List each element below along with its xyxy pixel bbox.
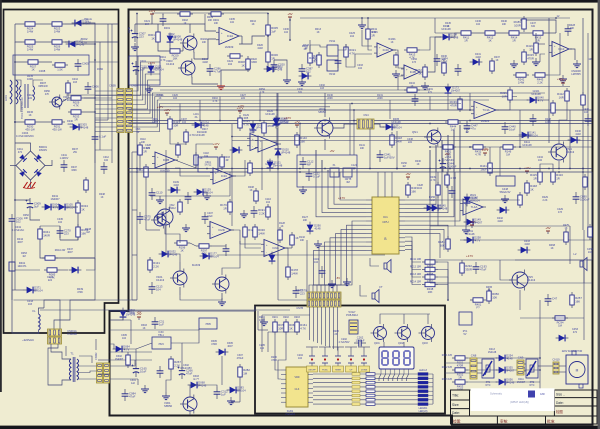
wire (15, 143, 31, 151)
svg-text:IC2A: IC2A (227, 34, 233, 38)
resistor R008 (246, 56, 250, 72)
wire (231, 124, 233, 137)
svg-text:1M: 1M (86, 231, 89, 234)
wire (94, 130, 96, 163)
wire (368, 42, 372, 50)
wire (321, 234, 366, 298)
diode D005 (383, 124, 396, 131)
diode D003 (70, 124, 83, 131)
push button S202 (322, 352, 328, 366)
svg-text:1K: 1K (496, 59, 499, 62)
resistor R440 (518, 192, 522, 208)
svg-text:0.47uF/400VDC: 0.47uF/400VDC (16, 135, 34, 138)
diode D111 (230, 147, 243, 154)
svg-text:Size ..: Size .. (556, 393, 565, 397)
svg-text:1K: 1K (417, 163, 420, 166)
svg-text:3A: 3A (195, 116, 198, 119)
power rail (138, 317, 140, 320)
svg-text:4R: 4R (225, 159, 228, 162)
junction (94, 111, 96, 113)
junction (353, 109, 355, 111)
wire (333, 124, 357, 128)
wire (313, 225, 366, 298)
wire (239, 380, 241, 402)
ground (501, 195, 509, 203)
ground (559, 75, 567, 83)
wire (432, 374, 434, 404)
wire (95, 104, 117, 106)
svg-text:222: 222 (408, 141, 413, 144)
wire (110, 378, 139, 380)
capacitor C023 (207, 64, 214, 76)
transistor V003 (178, 59, 195, 78)
svg-text:Date:: Date: (452, 411, 460, 415)
svg-text:L001: L001 (4, 95, 8, 101)
svg-text:+7V: +7V (294, 120, 299, 124)
wire (535, 33, 537, 40)
resistor R421 (513, 73, 529, 77)
svg-text:104: 104 (584, 111, 589, 114)
resistor R049 (84, 177, 88, 193)
wire (313, 403, 418, 405)
wire (321, 307, 323, 322)
wire (95, 131, 117, 133)
svg-text:C008: C008 (39, 69, 46, 73)
capacitor C433 (449, 186, 456, 198)
diode GN21 (527, 97, 540, 104)
capacitor C110 (149, 188, 156, 200)
wire (30, 180, 32, 188)
svg-text:CN3B: CN3B (109, 85, 116, 88)
svg-text:8P: 8P (137, 131, 140, 134)
svg-text:IC2C: IC2C (221, 174, 227, 178)
svg-text:4007: 4007 (227, 345, 233, 348)
wire (405, 250, 421, 285)
zener diode ZD001 (72, 20, 85, 27)
wire (569, 110, 571, 168)
electrolytic capacitor C302 (178, 365, 186, 379)
svg-text:4148: 4148 (203, 124, 209, 128)
wire (15, 80, 21, 86)
wire (367, 18, 369, 26)
resistor R123 (148, 257, 152, 273)
wire (259, 93, 261, 121)
wire (39, 308, 45, 314)
svg-text:1K: 1K (565, 227, 568, 230)
thermistor RT2 (529, 362, 535, 375)
wire (405, 234, 440, 258)
resistor R030 (22, 120, 38, 124)
display board outline (255, 306, 445, 414)
svg-text:1M: 1M (402, 165, 405, 168)
connector CN8 (470, 358, 477, 379)
wire (474, 32, 482, 34)
svg-text:+17V: +17V (466, 254, 473, 258)
ground (260, 318, 268, 326)
capacitor C041b (377, 150, 384, 162)
wire (396, 131, 398, 169)
svg-text:2.2K: 2.2K (537, 81, 543, 85)
svg-text:S8550: S8550 (164, 404, 173, 408)
ground (328, 280, 336, 288)
resistor R150 (406, 182, 410, 198)
capacitor C111 (185, 192, 192, 204)
svg-text:NTC: NTC (530, 384, 535, 387)
junction (14, 199, 16, 201)
svg-text:ON/OFF: ON/OFF (308, 370, 316, 372)
IC201 pins (281, 370, 313, 402)
op-amp IC10 (549, 42, 572, 57)
svg-text:IC4C: IC4C (383, 48, 389, 52)
wire (276, 93, 278, 115)
svg-text:4148: 4148 (315, 227, 321, 231)
wire (447, 135, 449, 172)
7-seg digit 2 (393, 351, 399, 365)
wire (95, 90, 117, 92)
svg-text:470R: 470R (527, 56, 534, 60)
connector CN3B (117, 89, 124, 133)
wire (133, 93, 161, 118)
svg-text:IC2D: IC2D (218, 228, 224, 232)
svg-text:Q202: Q202 (398, 343, 404, 345)
junction (277, 168, 279, 170)
svg-text:1/4W: 1/4W (291, 271, 298, 275)
wire (33, 80, 43, 86)
wire (313, 373, 418, 375)
svg-text:CLK: CLK (295, 388, 300, 391)
svg-text:10R: 10R (278, 326, 283, 330)
thermistor mark 1 (483, 361, 492, 376)
svg-text:1K: 1K (281, 225, 284, 228)
svg-text:UF4148: UF4148 (449, 36, 459, 40)
svg-text:10uF: 10uF (207, 215, 213, 218)
wire (67, 206, 78, 208)
resistor R442 (404, 48, 420, 52)
wire (325, 324, 327, 346)
junction (94, 97, 96, 99)
junction (353, 168, 355, 170)
wire (539, 300, 541, 390)
junction (324, 120, 326, 122)
svg-text:47uF: 47uF (129, 395, 136, 399)
svg-text:4.7K: 4.7K (49, 276, 55, 280)
wire (309, 307, 311, 316)
wire (309, 40, 311, 50)
junction (219, 120, 221, 122)
wire (393, 50, 404, 68)
wire (180, 295, 222, 300)
bridge diode D4 (34, 169, 41, 176)
wire (133, 87, 161, 114)
electrolytic capacitor C009 (26, 198, 34, 212)
svg-text:1K: 1K (487, 289, 490, 292)
wire (110, 329, 200, 331)
capacitor C435 (530, 114, 537, 126)
resistor R434 (404, 88, 420, 92)
resistor R202 (284, 319, 288, 335)
svg-text:2uF: 2uF (278, 66, 283, 70)
resistor R405 (178, 199, 182, 215)
junction (582, 168, 584, 170)
svg-text:T001 1.2MH/3A DC: T001 1.2MH/3A DC (21, 97, 24, 119)
wire (221, 293, 223, 300)
svg-text:4148: 4148 (507, 357, 513, 361)
diode D302 (113, 346, 126, 353)
resonator CRT5 (343, 168, 352, 177)
diode D021 (275, 146, 282, 159)
svg-text:1.2MOV: 1.2MOV (60, 157, 69, 160)
wire (15, 199, 30, 201)
diode D106 (159, 251, 172, 258)
svg-text:223: 223 (139, 35, 144, 39)
transistor QN2 (154, 207, 173, 228)
resistor R414 (506, 31, 522, 35)
svg-text:3M: 3M (346, 181, 349, 184)
wire (229, 172, 231, 196)
resistor R034 (76, 200, 80, 216)
diode D045 (69, 267, 82, 274)
bridge diode D3 (19, 169, 26, 176)
capacitor C451 (473, 262, 480, 274)
wire (166, 372, 171, 392)
svg-text:1K: 1K (31, 68, 34, 72)
wire (12, 289, 24, 291)
electrolytic capacitor C001 (132, 61, 140, 75)
junction (558, 171, 560, 173)
wire (268, 331, 300, 333)
wire (94, 130, 96, 258)
wire (179, 104, 181, 121)
svg-text:1uF: 1uF (140, 68, 145, 72)
wire (380, 314, 430, 324)
junction (569, 168, 571, 170)
wire (582, 18, 584, 230)
junction (548, 120, 550, 122)
svg-text:1uF/50V: 1uF/50V (384, 156, 395, 160)
diode D301 (120, 308, 127, 321)
svg-text:472: 472 (573, 331, 578, 334)
wire (130, 320, 132, 344)
svg-text:2W: 2W (73, 151, 77, 154)
svg-text:HER104: HER104 (202, 191, 213, 195)
wire (14, 62, 16, 122)
wire (321, 160, 323, 172)
electrolytic capacitor CN44 (439, 158, 447, 172)
capacitor C440 (502, 122, 509, 134)
wire (289, 20, 291, 40)
wire (353, 110, 355, 155)
wire (44, 300, 60, 330)
wire (332, 346, 344, 348)
ground (131, 43, 139, 51)
wire (402, 374, 404, 381)
power rail (289, 17, 291, 20)
svg-text:4.7K: 4.7K (349, 51, 355, 55)
svg-text:10K: 10K (492, 295, 497, 299)
svg-text:4.7K: 4.7K (300, 326, 306, 330)
ground (227, 397, 235, 405)
wire (89, 61, 118, 63)
wire (134, 24, 136, 28)
svg-text:16K: 16K (440, 243, 445, 247)
wire (285, 247, 292, 249)
power rail (239, 111, 241, 114)
wire (285, 248, 288, 264)
diode D447 (429, 205, 442, 212)
diode D416 (496, 367, 509, 374)
LED indicator column (418, 373, 428, 376)
diode D107 (200, 253, 213, 260)
svg-text:10R: 10R (173, 123, 178, 127)
svg-text:1/4W: 1/4W (27, 48, 34, 52)
svg-text:4.7R: 4.7R (475, 153, 481, 157)
wire (132, 254, 137, 256)
wire (70, 257, 95, 259)
fan terminals (572, 351, 576, 355)
wire (428, 37, 441, 72)
wire (324, 110, 326, 117)
diode D304 (227, 387, 240, 394)
svg-text:1K: 1K (488, 39, 491, 43)
svg-text:MF: MF (307, 163, 311, 167)
wire (438, 277, 448, 300)
svg-text:78L5: 78L5 (158, 343, 164, 346)
svg-text:C006: C006 (92, 85, 99, 89)
wire (53, 206, 57, 208)
capacitor C423 (565, 24, 572, 36)
junction (361, 17, 363, 19)
wire (538, 365, 553, 367)
svg-text:74LS164: 74LS164 (285, 413, 295, 416)
svg-text:4R: 4R (304, 47, 307, 50)
wire (124, 349, 136, 363)
junction (367, 17, 369, 19)
svg-text:104: 104 (314, 261, 319, 264)
wire (239, 36, 265, 44)
resistor R466 (446, 236, 450, 252)
wire (14, 42, 16, 62)
diode D002 (148, 63, 155, 76)
bridge rectifier BD001 (16, 151, 45, 180)
wire (274, 60, 287, 76)
svg-text:222: 222 (28, 97, 33, 100)
svg-text:47u: 47u (471, 127, 476, 131)
svg-text:RC12 10R: RC12 10R (410, 266, 421, 269)
wire (15, 121, 22, 123)
wire (195, 152, 197, 168)
op-amp IC6A (261, 240, 288, 257)
wire (171, 343, 182, 365)
transformer T001 core (24, 84, 26, 108)
svg-text:-: - (212, 233, 213, 236)
svg-text:1/4W: 1/4W (258, 231, 265, 235)
wire (507, 357, 540, 359)
svg-text:1K: 1K (81, 207, 85, 211)
op-amp IC2B (152, 152, 178, 168)
wire (420, 37, 441, 50)
resistor R124 (228, 199, 232, 215)
wire (498, 32, 506, 34)
wire (405, 150, 430, 200)
wire bus (160, 92, 545, 94)
svg-text:C1213: C1213 (156, 278, 165, 282)
transistor V301 (180, 395, 197, 414)
wire (277, 93, 279, 300)
junction (259, 120, 261, 122)
svg-text:1K: 1K (184, 22, 187, 25)
svg-text:1K: 1K (251, 23, 254, 26)
svg-text:R044 2W: R044 2W (55, 249, 66, 252)
wire (370, 258, 379, 266)
svg-text:1K: 1K (550, 247, 553, 250)
wire (434, 18, 436, 33)
svg-text:470uF: 470uF (237, 357, 244, 360)
svg-text:104: 104 (266, 201, 271, 204)
svg-text:1R: 1R (556, 176, 560, 180)
capacitor C007 (92, 132, 99, 144)
resistor R415b (538, 169, 542, 185)
resistor R426 (583, 174, 587, 190)
wire (175, 168, 210, 176)
wire (383, 342, 385, 347)
svg-text:(C8547 LED(x8)): (C8547 LED(x8)) (510, 401, 529, 404)
capacitor C114 (137, 212, 144, 224)
svg-text:QN1: QN1 (412, 130, 418, 134)
diode D432 (497, 207, 510, 214)
svg-text:RC14 10R: RC14 10R (410, 281, 421, 284)
ground (217, 82, 225, 90)
wire (199, 100, 201, 121)
wire (48, 344, 71, 385)
svg-text:CN001B: CN001B (67, 333, 77, 336)
wire (325, 238, 366, 298)
capacitor C112 (300, 157, 307, 169)
svg-text:4.7V: 4.7V (475, 239, 481, 243)
junction (231, 136, 233, 138)
svg-text:R471 F/R: R471 F/R (442, 354, 453, 357)
ground (392, 70, 400, 78)
wire (212, 245, 226, 247)
wire bus3 (160, 86, 570, 88)
svg-text:F?: F? (476, 306, 480, 310)
resistor R475 (564, 229, 568, 245)
diode D010 (440, 34, 453, 41)
svg-text:-: - (260, 147, 261, 150)
svg-text:TC4A: TC4A (483, 108, 490, 112)
diode D043 (24, 287, 37, 294)
power rail (547, 231, 549, 234)
resonator box (297, 155, 357, 187)
svg-text:-: - (406, 74, 407, 77)
svg-text:CN7B: CN7B (296, 307, 303, 310)
resistor R026 (49, 40, 65, 44)
svg-text:IC1: IC1 (383, 215, 388, 219)
wire (40, 225, 60, 227)
wire (324, 93, 326, 110)
wire (20, 101, 22, 112)
resistor R441 (488, 160, 492, 176)
ground (532, 58, 540, 66)
title stamp (528, 391, 535, 398)
wire (60, 216, 78, 240)
capacitor C104 (306, 169, 313, 181)
resistor R024 (22, 22, 38, 26)
wire (145, 180, 147, 230)
diode D431 (470, 59, 483, 66)
wire (379, 374, 381, 381)
wire (310, 45, 327, 50)
wire (79, 356, 92, 363)
